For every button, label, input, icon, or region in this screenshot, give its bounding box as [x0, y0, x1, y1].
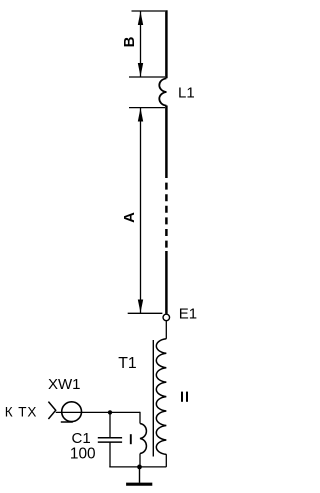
label I [130, 434, 132, 444]
wire connector to primary [56, 411, 140, 413]
svg-text:T1: T1 [118, 355, 137, 372]
dimension A line [140, 108, 142, 314]
antenna element dashed segment [165, 171, 168, 251]
svg-text:XW1: XW1 [48, 376, 81, 393]
connector XW1 shield tick [61, 421, 73, 423]
dimension A tick bottom [128, 312, 163, 314]
dimension B arrowhead down [138, 63, 143, 77]
svg-text:100: 100 [70, 446, 96, 463]
transformer T1 primary winding I [140, 424, 146, 454]
svg-text:L1: L1 [178, 85, 195, 102]
ground bar [126, 483, 152, 486]
connector XW1 pin chevron [48, 402, 55, 419]
wire top to primary corner [139, 412, 141, 424]
transformer T1 secondary winding II [156, 339, 166, 455]
transformer core [152, 340, 154, 457]
capacitor C1 top lead [109, 412, 111, 437]
junction dot C1 top [108, 410, 112, 414]
inductor L1 [159, 78, 166, 105]
capacitor C1 plate top [98, 437, 122, 439]
capacitor C1 plate bottom [98, 441, 122, 443]
connector XW1 circle [62, 402, 82, 422]
label II [181, 392, 183, 402]
junction dot ground [137, 465, 142, 470]
capacitor C1 bottom lead [109, 443, 111, 467]
wire E1 to secondary [165, 321, 167, 339]
primary bottom lead [139, 454, 141, 467]
bottom wire [109, 466, 166, 468]
svg-text:К ТХ: К ТХ [5, 404, 37, 419]
dimension B line [140, 11, 142, 77]
dimension B arrowhead up [138, 12, 143, 26]
antenna element middle solid segment [165, 106, 168, 172]
antenna element lower solid segment [165, 251, 168, 314]
dimension B tick bottom [129, 76, 165, 78]
node E1 [163, 314, 170, 321]
dimension A arrowhead down [138, 300, 143, 313]
svg-text:B: B [121, 36, 138, 47]
svg-text:A: A [121, 212, 138, 223]
ground stub [139, 467, 141, 483]
dimension A arrowhead up [138, 108, 143, 122]
dimension B tick top [132, 10, 166, 12]
svg-text:E1: E1 [179, 306, 197, 323]
dimension A tick top [129, 107, 165, 109]
wire secondary bottom [165, 454, 167, 467]
antenna element top segment [165, 10, 168, 78]
